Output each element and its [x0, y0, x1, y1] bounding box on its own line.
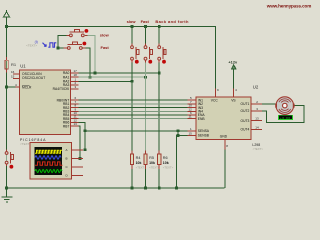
- svg-text:SENSA: SENSA: [198, 129, 210, 133]
- wire RA1 to Fast column: [79, 76, 146, 78]
- svg-text:OUT3: OUT3: [241, 119, 250, 123]
- svg-text:OUT1: OUT1: [241, 102, 250, 106]
- oscilloscope pin stubs: [71, 150, 83, 176]
- waveform channel C red: [35, 162, 63, 165]
- svg-text:13: 13: [74, 122, 78, 126]
- node junction at RA1 wire: [89, 76, 92, 79]
- oscilloscope body: [30, 143, 71, 179]
- push button column3 body: [158, 46, 166, 60]
- node junction top-left: [5, 25, 8, 28]
- svg-text:slow: slow: [100, 33, 110, 38]
- svg-text:<TEXT>: <TEXT>: [26, 43, 37, 47]
- svg-text:11: 11: [189, 115, 192, 119]
- push button column1 body: [131, 46, 139, 60]
- svg-text:U1: U1: [20, 64, 26, 69]
- wire SENSB to ground: [177, 136, 188, 189]
- red dot slow button: [85, 29, 89, 33]
- svg-text:A: A: [66, 148, 68, 152]
- wire left rail vertical: [6, 17, 8, 152]
- U2 right pin numbers: [255, 100, 259, 129]
- push button column2 body: [144, 46, 152, 60]
- wire slow button right to RA0: [84, 35, 95, 73]
- red dot Fast button: [83, 42, 87, 46]
- push button column 2 "Fast": wire from rail: [145, 27, 147, 46]
- wire R5 to ground rail: [145, 165, 147, 188]
- waveform channel B blue: [35, 156, 61, 159]
- U2 right pin stubs: [251, 104, 262, 129]
- U2 bottom GND pin stub: [224, 139, 226, 149]
- node junctions on top rail: [131, 25, 134, 28]
- node junction at RA0 wire: [94, 72, 97, 75]
- wire RA2 to slow column: [79, 80, 133, 82]
- wire RB7 to scope B: [79, 126, 81, 158]
- wire left rail below reset button: [6, 164, 8, 188]
- waveform channel A yellow: [35, 150, 62, 153]
- svg-text:VCC: VCC: [211, 99, 219, 103]
- resistor R1: [5, 60, 8, 69]
- wire MCLR from rail: [7, 86, 16, 88]
- wire top rail: [7, 26, 217, 28]
- wire bottom ground rail: [7, 187, 225, 189]
- U1 right pin numbers: [74, 69, 78, 126]
- push button "slow" (horizontal): [70, 30, 85, 37]
- svg-text:U2: U2: [253, 84, 259, 89]
- svg-text:<TEXT>: <TEXT>: [253, 147, 264, 151]
- wire U2 GND down to rail: [224, 150, 226, 189]
- wire left rail behind reset button: [6, 152, 8, 164]
- IC U2 L298 body: [196, 97, 251, 139]
- svg-text:+12v: +12v: [228, 59, 238, 64]
- wire RB2 to IN3: [79, 107, 188, 109]
- svg-text:16: 16: [11, 70, 15, 74]
- oscilloscope channel labels: [66, 148, 69, 178]
- wire RB0 to IN1: [79, 99, 188, 101]
- U1 left pin names: [22, 72, 45, 90]
- svg-text:+0.00: +0.00: [280, 116, 290, 120]
- svg-text:RA4/T0CKI: RA4/T0CKI: [53, 87, 70, 91]
- wire RB5 to ENB: [79, 118, 188, 120]
- U2 left pin numbers: [189, 96, 193, 135]
- node junction bottom-left: [5, 187, 8, 190]
- waveform channel D green: [35, 170, 62, 173]
- motor LCD display: [279, 115, 293, 119]
- resistor R4: [130, 154, 133, 165]
- svg-text:RB7: RB7: [63, 124, 70, 128]
- ground symbol bottom left: [2, 188, 13, 202]
- svg-text:Back and forth: Back and forth: [155, 19, 189, 24]
- U2 right pin names: [241, 102, 250, 131]
- wire Fast button right to RA1: [82, 48, 90, 77]
- svg-text:GND: GND: [220, 135, 228, 139]
- wire clock to Fast button: [57, 47, 68, 49]
- svg-text:slow: slow: [127, 19, 137, 24]
- wire R4 to ground rail: [131, 165, 133, 188]
- svg-text:<TEXT>: <TEXT>: [163, 165, 174, 169]
- push button column 3 "Back and forth": wire from rail: [158, 27, 160, 46]
- oscilloscope screen: [35, 147, 63, 175]
- power +5V symbol top left: [3, 10, 9, 17]
- wire RB6 to scope A and SENSA: [79, 122, 86, 150]
- push button column 1 "slow": wire from rail: [131, 27, 133, 46]
- wire OUT1 to motor: [262, 103, 276, 105]
- svg-text:OUT4: OUT4: [241, 128, 250, 132]
- wire RB4 to ENA: [79, 114, 188, 116]
- wire R6 to ground rail: [158, 165, 160, 188]
- U1 left pin stubs OSC1 OSC2: [13, 74, 20, 87]
- motor: [275, 97, 294, 115]
- U2 left pin stubs: [188, 100, 197, 135]
- svg-text:Fast: Fast: [101, 45, 110, 50]
- wire RB1 to IN2: [79, 103, 188, 105]
- resistor R6: [158, 154, 161, 165]
- svg-text:(t): (t): [35, 40, 38, 44]
- svg-text:R1: R1: [11, 62, 17, 67]
- red pin stubs of buttons: [7, 35, 160, 166]
- wire slow button left branch: [58, 35, 70, 48]
- svg-text:ENB: ENB: [198, 117, 206, 121]
- resistor R5: [144, 154, 147, 165]
- wire column3 below button to R6: [158, 60, 160, 154]
- svg-text:<TEXT>: <TEXT>: [149, 165, 160, 169]
- U1 right pin stubs RA0-RA4 RB0-RB7: [71, 73, 79, 126]
- svg-text:MCLR: MCLR: [22, 85, 32, 89]
- svg-text:SENSB: SENSB: [198, 134, 210, 138]
- wire OUT2 loop to motor right: [262, 106, 304, 123]
- svg-text:R5: R5: [149, 156, 154, 160]
- U2 top pin stubs: [216, 89, 234, 97]
- svg-text:B: B: [66, 157, 68, 161]
- wire column2 below button to R5: [145, 60, 147, 154]
- red dot column2: [148, 60, 152, 64]
- U1 right pin names: [53, 71, 70, 128]
- red dot column3: [162, 60, 166, 64]
- wire RB3 to IN4: [79, 110, 188, 112]
- node junction MCLR: [5, 86, 8, 89]
- svg-text:OUT2: OUT2: [241, 109, 250, 113]
- push button RESET (left rail): [5, 152, 13, 164]
- U1 left pin numbers: [11, 70, 17, 87]
- wire column1 below button to R4: [131, 60, 133, 154]
- svg-text:www.hennypass.com: www.hennypass.com: [266, 4, 312, 9]
- node junction clock: [57, 47, 60, 50]
- wire RA0 to Back-and-forth column: [79, 72, 160, 74]
- svg-text:15: 15: [189, 132, 193, 136]
- push button "Fast" (horizontal): [67, 42, 82, 49]
- svg-text:R4: R4: [136, 156, 141, 160]
- wire VCC drop to U2 pin 9: [215, 27, 217, 89]
- red dot column1: [135, 60, 139, 64]
- svg-text:R6: R6: [163, 156, 168, 160]
- wire SENSA branch down to SENSB: [177, 131, 179, 136]
- U2 left pin names: [198, 98, 210, 137]
- svg-text:<TEXT>: <TEXT>: [136, 165, 147, 169]
- svg-text:14: 14: [255, 125, 259, 129]
- IC U1 PIC16F84A body: [20, 70, 71, 134]
- svg-text:OSC2/CLKOUT: OSC2/CLKOUT: [22, 76, 45, 80]
- svg-text:13: 13: [255, 117, 259, 121]
- svg-text:Fast: Fast: [141, 19, 150, 24]
- svg-text:15: 15: [11, 74, 15, 78]
- red pin stubs of resistors: [7, 57, 160, 169]
- red dot reset button: [10, 165, 14, 169]
